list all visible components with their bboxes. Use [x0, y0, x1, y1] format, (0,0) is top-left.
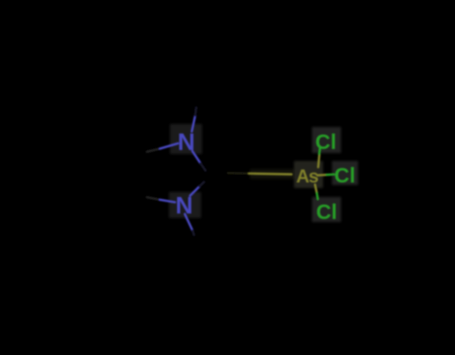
svg-text:As: As — [296, 165, 318, 186]
svg-text:Cl: Cl — [334, 165, 355, 188]
bond As-ClB green half — [317, 193, 318, 199]
bond C3a-N3 dark lead — [147, 197, 160, 200]
bond N3 down stub blue — [185, 214, 193, 231]
bond N3-C2 blue half — [190, 186, 200, 196]
bond As-ClB olive half — [315, 185, 317, 194]
svg-text:N: N — [178, 129, 195, 156]
bond As-ClR olive half — [318, 174, 327, 177]
halo Cl right — [332, 161, 358, 185]
bond N3-C2 fading tail — [200, 182, 205, 186]
svg-text:Cl: Cl — [315, 131, 336, 154]
bond N3 down stub fading tail — [193, 231, 194, 235]
svg-text:N: N — [176, 192, 193, 219]
svg-text:Cl: Cl — [316, 201, 337, 224]
bond As-ClR green half — [327, 173, 335, 176]
bond As-ClT green half — [318, 148, 321, 154]
bond C2-As olive half — [249, 172, 292, 175]
JPEG halo plates — [169, 124, 358, 222]
bond N1-C2 blue half — [192, 151, 200, 163]
bond N1 up stub fading tail — [195, 108, 196, 116]
bond As-ClT olive half — [318, 154, 319, 167]
halo N3 — [169, 192, 201, 218]
bond C7a-N1 blue half — [160, 143, 178, 148]
halo N1 — [170, 124, 202, 154]
halo As bond row — [250, 169, 294, 179]
bond C7a-N1 dark lead — [147, 149, 160, 152]
bond N1-C2 fading tail — [201, 163, 206, 170]
halo As — [294, 161, 323, 188]
bond N1 up stub blue — [192, 116, 195, 132]
halo Cl top — [312, 127, 341, 153]
halo Cl bottom — [312, 197, 341, 222]
bond C3a-N3 blue half — [160, 200, 175, 202]
bond C2-As dark lead — [228, 172, 249, 175]
